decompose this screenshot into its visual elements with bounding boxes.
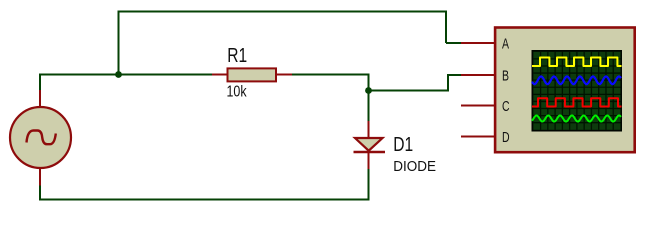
- pin diode cathode (bottom): [368, 152, 370, 169]
- pin diode anode (top): [368, 121, 370, 138]
- svg-text:D1: D1: [393, 133, 413, 155]
- svg-text:D: D: [502, 128, 510, 145]
- svg-text:10k: 10k: [227, 83, 248, 101]
- node junction at diode/scope-B: [365, 87, 372, 94]
- wire main horizontal from source to resistor: [40, 75, 213, 91]
- resistor R1 body: [228, 68, 277, 81]
- AC source V1 body: [10, 107, 71, 168]
- pin source bottom: [39, 168, 41, 186]
- pin source top: [39, 90, 41, 108]
- wire node to diode anode: [368, 91, 370, 123]
- wire resistor to diode node: [291, 75, 369, 91]
- wire channel A link: [446, 42, 463, 44]
- wire bottom return from source to diode cathode: [40, 169, 369, 200]
- scope screen grid area: [533, 52, 620, 130]
- oscilloscope body: [495, 28, 635, 153]
- wire top loop from node A junction to scope channel A: [119, 12, 447, 75]
- diode D1 cathode bar: [354, 151, 386, 153]
- svg-text:R1: R1: [227, 44, 247, 66]
- node junction at source/top-loop: [115, 71, 122, 78]
- trace channel C red square wave: [532, 98, 622, 106]
- svg-text:DIODE: DIODE: [393, 158, 436, 175]
- wire node to scope channel B: [369, 75, 464, 91]
- pin scope A: [461, 42, 495, 44]
- pin scope C: [461, 105, 495, 107]
- scope screen grid lines: [533, 52, 620, 130]
- AC source sine symbol: [27, 131, 56, 145]
- trace channel A yellow square wave: [532, 58, 622, 67]
- pin scope B: [461, 74, 495, 76]
- pin resistor left: [212, 74, 228, 76]
- svg-text:A: A: [502, 34, 509, 51]
- svg-text:B: B: [502, 66, 509, 83]
- pin resistor right: [275, 74, 292, 76]
- svg-text:C: C: [502, 97, 510, 114]
- trace channel B blue sine wave: [532, 76, 621, 84]
- scope screen background: [532, 50, 623, 132]
- diode D1 triangle: [355, 138, 383, 151]
- pin scope D: [461, 136, 495, 138]
- trace channel D green sine wave: [532, 115, 621, 121]
